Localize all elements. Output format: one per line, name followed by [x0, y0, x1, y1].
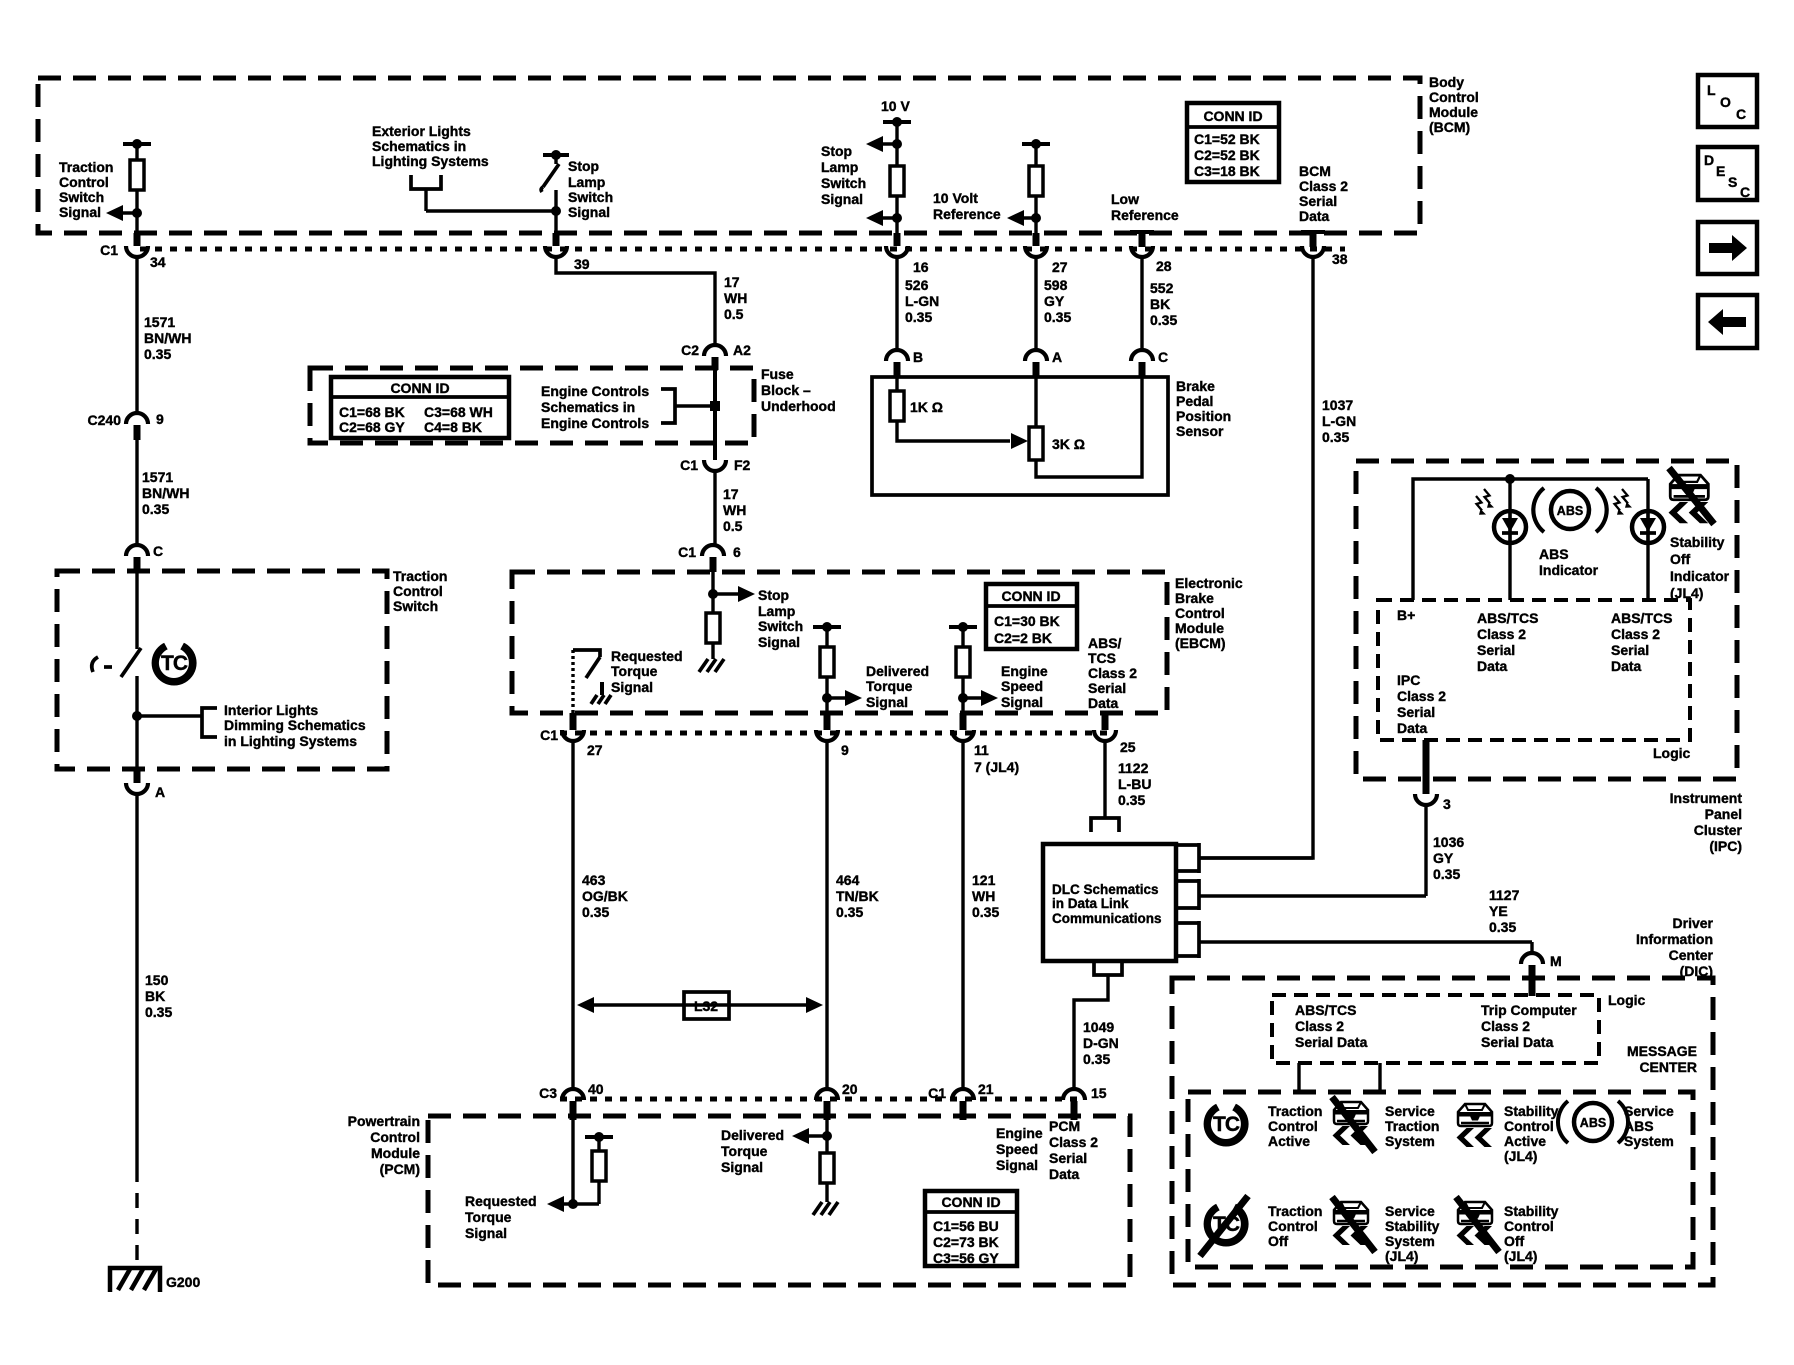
wire 526 L-GN	[895, 257, 898, 350]
svg-text:B+: B+	[1397, 607, 1415, 623]
svg-text:Class 2: Class 2	[1397, 688, 1446, 704]
off-page bracket (exterior lights ref)	[411, 175, 441, 189]
ground G200	[110, 1268, 200, 1292]
svg-text:Schematics in: Schematics in	[372, 138, 466, 154]
svg-text:25: 25	[1120, 739, 1136, 755]
nav button LOC	[1698, 75, 1757, 127]
svg-text:Position: Position	[1176, 408, 1231, 424]
off-page bracket above DLC	[1091, 818, 1119, 832]
stop lamp switch (BCM internal)	[541, 150, 569, 233]
connector pin 27	[1025, 233, 1068, 275]
svg-text:Active: Active	[1504, 1133, 1546, 1149]
svg-text:E: E	[1716, 163, 1725, 179]
svg-text:Traction: Traction	[1268, 1203, 1322, 1219]
svg-text:Signal: Signal	[1001, 694, 1043, 710]
svg-text:0.35: 0.35	[972, 904, 999, 920]
svg-text:0.35: 0.35	[1322, 429, 1349, 445]
svg-text:Driver: Driver	[1673, 915, 1714, 931]
requested torque branch (PCM)	[547, 1120, 613, 1212]
svg-text:Signal: Signal	[866, 694, 908, 710]
svg-text:(JL4): (JL4)	[1504, 1148, 1537, 1164]
svg-text:Underhood: Underhood	[761, 398, 836, 414]
svg-text:0.35: 0.35	[905, 309, 932, 325]
icon: car skid (stability control active)	[1457, 1104, 1493, 1147]
svg-text:C1=68 BK: C1=68 BK	[339, 404, 405, 420]
BCM Class 2 Serial Data stub (pin 38)	[1301, 232, 1325, 247]
svg-text:Requested: Requested	[465, 1193, 537, 1209]
svg-text:Data: Data	[1477, 658, 1508, 674]
svg-text:Control: Control	[1504, 1218, 1554, 1234]
svg-text:C: C	[1740, 184, 1750, 200]
svg-text:C3: C3	[539, 1085, 557, 1101]
wire 1122 L-BU	[1103, 741, 1106, 818]
svg-text:Control: Control	[1175, 605, 1225, 621]
svg-text:ABS: ABS	[1624, 1118, 1654, 1134]
svg-text:Stability: Stability	[1504, 1203, 1559, 1219]
wire 17 WH 0.5 (fuse to EBCM)	[713, 471, 716, 545]
svg-text:Interior Lights: Interior Lights	[224, 702, 318, 718]
svg-text:D-GN: D-GN	[1083, 1035, 1119, 1051]
Low Reference stub (pin 28)	[1130, 232, 1154, 247]
svg-text:Switch: Switch	[568, 189, 613, 205]
svg-text:Class 2: Class 2	[1295, 1018, 1344, 1034]
DLC pin 1 (to BCM 1037)	[1176, 843, 1313, 873]
svg-text:Engine: Engine	[996, 1125, 1043, 1141]
svg-text:C1: C1	[540, 727, 558, 743]
svg-text:Stop: Stop	[821, 143, 852, 159]
svg-text:L: L	[1707, 82, 1716, 98]
svg-text:1127: 1127	[1489, 887, 1520, 903]
wire 17 WH 0.5 to fuse block	[556, 257, 715, 345]
LED indicator: ABS	[1476, 479, 1526, 600]
requested torque signal switch (EBCM)	[573, 650, 611, 713]
fuse wire through block	[713, 370, 717, 460]
svg-text:Torque: Torque	[465, 1209, 512, 1225]
svg-text:Reference: Reference	[1111, 207, 1179, 223]
nav button back (left arrow)	[1698, 295, 1757, 348]
module box: Traction Control Switch	[57, 571, 387, 769]
svg-text:Stability: Stability	[1504, 1103, 1559, 1119]
svg-text:0.5: 0.5	[724, 306, 744, 322]
svg-text:Reference: Reference	[933, 206, 1001, 222]
svg-text:0.35: 0.35	[145, 1004, 172, 1020]
svg-text:ABS/TCS: ABS/TCS	[1295, 1002, 1356, 1018]
svg-text:39: 39	[574, 256, 590, 272]
svg-text:Signal: Signal	[758, 634, 800, 650]
svg-text:CONN ID: CONN ID	[1203, 108, 1262, 124]
svg-text:Information: Information	[1636, 931, 1713, 947]
svg-text:WH: WH	[972, 888, 995, 904]
CONN ID table (PCM)	[925, 1191, 1017, 1266]
connector pin 16	[886, 233, 929, 275]
svg-text:Module: Module	[1429, 104, 1478, 120]
svg-text:WH: WH	[723, 502, 746, 518]
B+ bus wire	[1413, 479, 1648, 600]
svg-text:Serial: Serial	[1088, 680, 1126, 696]
svg-text:10 Volt: 10 Volt	[933, 190, 978, 206]
harness dotted line (BCM connector)	[140, 247, 1345, 252]
svg-text:0.35: 0.35	[1118, 792, 1145, 808]
svg-text:27: 27	[587, 742, 603, 758]
svg-text:Lamp: Lamp	[758, 603, 795, 619]
wire M into logic box	[1529, 978, 1536, 996]
svg-text:in Lighting Systems: in Lighting Systems	[224, 733, 357, 749]
module box: Electronic Brake Control Module (EBCM)	[512, 572, 1167, 713]
svg-text:Torque: Torque	[866, 678, 913, 694]
svg-text:9: 9	[841, 742, 849, 758]
connector pin 28	[1131, 246, 1172, 274]
off-page bracket below DLC + wire 1049 D-GN	[1074, 961, 1122, 1089]
svg-text:IPC: IPC	[1397, 672, 1420, 688]
connector pin 3 (IPC)	[1415, 740, 1451, 812]
svg-text:C2=68 GY: C2=68 GY	[339, 419, 405, 435]
harness dotted line (PCM connector)	[560, 1097, 1082, 1102]
svg-text:C3=68 WH: C3=68 WH	[424, 404, 493, 420]
svg-text:Communications: Communications	[1052, 911, 1162, 926]
resistor (stop lamp sw signal)	[890, 166, 904, 196]
svg-text:TC: TC	[161, 652, 188, 675]
svg-text:Brake: Brake	[1176, 378, 1215, 394]
module box: Instrument Panel Cluster (IPC)	[1356, 461, 1737, 779]
icon: car with slash (service traction system)	[1332, 1097, 1375, 1152]
svg-text:ABS: ABS	[1557, 504, 1583, 518]
svg-text:(JL4): (JL4)	[1504, 1248, 1537, 1264]
module box: Body Control Module (BCM)	[38, 78, 1420, 233]
svg-text:1K Ω: 1K Ω	[910, 399, 943, 415]
svg-text:(JL4): (JL4)	[1385, 1248, 1418, 1264]
svg-text:0.35: 0.35	[836, 904, 863, 920]
svg-text:BN/WH: BN/WH	[142, 485, 189, 501]
svg-text:MESSAGE: MESSAGE	[1627, 1043, 1697, 1059]
svg-text:Serial Data: Serial Data	[1295, 1034, 1368, 1050]
svg-text:Data: Data	[1299, 208, 1330, 224]
svg-text:0.35: 0.35	[1044, 309, 1071, 325]
svg-text:GY: GY	[1044, 293, 1065, 309]
svg-text:B: B	[913, 349, 923, 365]
svg-text:C3=56 GY: C3=56 GY	[933, 1250, 999, 1266]
connector C1 pin 34	[100, 233, 166, 270]
module box: Driver Information Center (DIC)	[1172, 978, 1713, 1285]
svg-text:BN/WH: BN/WH	[144, 330, 191, 346]
svg-text:Traction: Traction	[393, 568, 447, 584]
DLC pin 2 (to IPC 1036)	[1176, 879, 1426, 910]
inline connector C240 pin 9	[88, 411, 164, 440]
svg-text:Exterior Lights: Exterior Lights	[372, 123, 471, 139]
svg-text:0.35: 0.35	[144, 346, 171, 362]
svg-text:27: 27	[1052, 259, 1068, 275]
svg-text:C3=18 BK: C3=18 BK	[1194, 163, 1260, 179]
svg-text:Serial: Serial	[1611, 642, 1649, 658]
svg-text:526: 526	[905, 277, 929, 293]
connector C3 pin 40 (PCM)	[539, 1081, 604, 1120]
svg-text:C2=52 BK: C2=52 BK	[1194, 147, 1260, 163]
svg-text:Service: Service	[1385, 1203, 1435, 1219]
svg-text:Delivered: Delivered	[721, 1127, 784, 1143]
svg-text:Schematics in: Schematics in	[541, 399, 635, 415]
svg-text:TN/BK: TN/BK	[836, 888, 879, 904]
connector C2 / A2 (fuse block)	[681, 342, 751, 370]
harness span marker L32	[577, 992, 823, 1019]
svg-text:Control: Control	[1429, 89, 1479, 105]
svg-text:3K Ω: 3K Ω	[1052, 436, 1085, 452]
resistor 1K	[890, 377, 1028, 449]
svg-text:C: C	[1736, 106, 1746, 122]
svg-text:Off: Off	[1504, 1233, 1525, 1249]
svg-text:38: 38	[1332, 251, 1348, 267]
svg-text:598: 598	[1044, 277, 1068, 293]
svg-text:0.35: 0.35	[1150, 312, 1177, 328]
svg-text:Data: Data	[1088, 695, 1119, 711]
svg-text:D: D	[1704, 152, 1714, 168]
svg-text:Speed: Speed	[1001, 678, 1043, 694]
connector C1 pin 6 (EBCM)	[678, 544, 741, 572]
wire 464 TN/BK	[825, 741, 828, 1089]
switch (traction control)	[92, 568, 141, 769]
svg-text:Indicator: Indicator	[1539, 562, 1599, 578]
svg-text:Traction: Traction	[1385, 1118, 1439, 1134]
module box: Powertrain Control Module (PCM)	[428, 1116, 1130, 1285]
svg-text:C: C	[1158, 349, 1168, 365]
CONN ID table (EBCM)	[986, 584, 1077, 649]
svg-text:Logic: Logic	[1653, 745, 1691, 761]
svg-text:Fuse: Fuse	[761, 366, 794, 382]
svg-text:Electronic: Electronic	[1175, 575, 1243, 591]
delivered torque branch (PCM)	[792, 1120, 838, 1215]
svg-text:ABS/TCS: ABS/TCS	[1611, 610, 1672, 626]
module box: Fuse Block - Underhood	[310, 368, 754, 443]
svg-text:Service: Service	[1624, 1103, 1674, 1119]
wire 1037 L-GN (BCM to DLC)	[1199, 257, 1313, 858]
svg-text:System: System	[1385, 1233, 1435, 1249]
message center box	[1188, 1092, 1693, 1267]
wire 598 GY	[1034, 257, 1037, 350]
wire 463 OG/BK	[571, 741, 574, 1089]
DLC pin 3 (to DIC 1127)	[1176, 921, 1532, 958]
CONN ID table (BCM)	[1187, 103, 1279, 182]
svg-text:(IPC): (IPC)	[1709, 838, 1742, 854]
svg-text:(JL4): (JL4)	[1670, 585, 1703, 601]
svg-text:0.35: 0.35	[582, 904, 609, 920]
svg-text:A: A	[1052, 349, 1062, 365]
svg-text:Stability: Stability	[1670, 534, 1725, 550]
svg-text:16: 16	[913, 259, 929, 275]
svg-text:Signal: Signal	[465, 1225, 507, 1241]
svg-text:C: C	[153, 543, 163, 559]
svg-text:BK: BK	[145, 988, 165, 1004]
svg-text:G200: G200	[166, 1274, 200, 1290]
connector pin 11	[952, 713, 1019, 775]
wire 1571 BN/WH (upper)	[135, 257, 138, 413]
svg-text:C1: C1	[928, 1085, 946, 1101]
connector pin M (DIC)	[1521, 953, 1562, 978]
svg-text:Speed: Speed	[996, 1141, 1038, 1157]
svg-text:L-GN: L-GN	[1322, 413, 1356, 429]
svg-text:Class 2: Class 2	[1299, 178, 1348, 194]
svg-text:Block –: Block –	[761, 382, 811, 398]
svg-text:Class 2: Class 2	[1088, 665, 1137, 681]
svg-text:0.35: 0.35	[1083, 1051, 1110, 1067]
signal arrow: Traction Control Switch Signal	[106, 205, 142, 221]
signal arrow lower (stop lamp)	[866, 210, 902, 226]
svg-text:1122: 1122	[1118, 760, 1149, 776]
svg-text:L32: L32	[694, 998, 718, 1014]
connector pin A	[1025, 349, 1062, 377]
svg-text:Control: Control	[59, 174, 109, 190]
icon: TC (traction control active)	[1204, 1098, 1249, 1146]
svg-text:Traction: Traction	[59, 159, 113, 175]
svg-text:(EBCM): (EBCM)	[1175, 635, 1226, 651]
10 Volt Reference branch	[1007, 139, 1050, 233]
svg-text:Data: Data	[1049, 1166, 1080, 1182]
ground (stop lamp branch)	[699, 659, 724, 672]
harness dotted line (EBCM connector)	[560, 731, 1113, 736]
icon: (ABS) service	[1558, 1101, 1628, 1143]
svg-text:Signal: Signal	[611, 679, 653, 695]
wire to stop lamp switch node	[426, 209, 556, 212]
svg-text:C2=2 BK: C2=2 BK	[994, 630, 1052, 646]
resistor (traction control switch signal pull-up)	[123, 139, 151, 233]
svg-text:C2=73 BK: C2=73 BK	[933, 1234, 999, 1250]
connector pin 9	[816, 713, 849, 758]
svg-text:Lighting Systems: Lighting Systems	[372, 153, 489, 169]
svg-text:10 V: 10 V	[881, 98, 910, 114]
connector pin B (brake pedal position sensor)	[886, 349, 923, 377]
svg-text:L-GN: L-GN	[905, 293, 939, 309]
svg-text:Requested: Requested	[611, 648, 683, 664]
delivered torque branch (EBCM)	[813, 622, 862, 713]
svg-text:28: 28	[1156, 258, 1172, 274]
svg-text:Off: Off	[1268, 1233, 1289, 1249]
svg-text:ABS/TCS: ABS/TCS	[1477, 610, 1538, 626]
svg-text:CONN ID: CONN ID	[390, 380, 449, 396]
icon: car with slash (service stability system)	[1332, 1197, 1375, 1252]
svg-text:O: O	[1720, 94, 1731, 110]
svg-text:Switch: Switch	[821, 175, 866, 191]
svg-text:C1: C1	[680, 457, 698, 473]
svg-text:1049: 1049	[1083, 1019, 1114, 1035]
junction + wire to interior lights ref	[132, 711, 142, 721]
svg-text:Signal: Signal	[721, 1159, 763, 1175]
svg-text:(BCM): (BCM)	[1429, 119, 1470, 135]
svg-text:F2: F2	[734, 457, 751, 473]
svg-text:CONN ID: CONN ID	[941, 1194, 1000, 1210]
svg-text:Low: Low	[1111, 191, 1139, 207]
svg-text:Sensor: Sensor	[1176, 423, 1224, 439]
svg-text:17: 17	[724, 274, 740, 290]
svg-text:Control: Control	[393, 583, 443, 599]
wire 552 BK	[1140, 257, 1143, 350]
svg-text:C1=30 BK: C1=30 BK	[994, 613, 1060, 629]
svg-text:WH: WH	[724, 290, 747, 306]
component box: DLC Schematics in Data Link Communications	[1043, 844, 1176, 961]
svg-text:Serial: Serial	[1049, 1150, 1087, 1166]
svg-text:Off: Off	[1670, 551, 1691, 567]
connector pin 25	[1094, 713, 1136, 755]
wire 1036 GY (IPC to DLC)	[1424, 805, 1427, 896]
svg-text:Signal: Signal	[821, 191, 863, 207]
svg-text:A: A	[155, 784, 165, 800]
svg-text:Stop: Stop	[568, 158, 599, 174]
svg-text:Lamp: Lamp	[821, 159, 858, 175]
wire 150 BK to ground	[135, 794, 138, 1167]
svg-text:Delivered: Delivered	[866, 663, 929, 679]
connector pin 15	[1063, 1085, 1107, 1120]
svg-text:Control: Control	[1504, 1118, 1554, 1134]
svg-text:7 (JL4): 7 (JL4)	[974, 759, 1019, 775]
svg-text:C1=56 BU: C1=56 BU	[933, 1218, 999, 1234]
svg-text:Module: Module	[371, 1145, 420, 1161]
svg-text:(DIC): (DIC)	[1680, 963, 1713, 979]
svg-text:Torque: Torque	[721, 1143, 768, 1159]
svg-text:Traction: Traction	[1268, 1103, 1322, 1119]
signal arrow: Stop Lamp Switch Signal (to BCM)	[866, 136, 902, 152]
svg-text:121: 121	[972, 872, 996, 888]
svg-text:ABS/: ABS/	[1088, 635, 1122, 651]
svg-text:6: 6	[733, 544, 741, 560]
svg-text:in Data Link: in Data Link	[1052, 896, 1129, 911]
svg-text:Engine: Engine	[1001, 663, 1048, 679]
svg-text:Class 2: Class 2	[1477, 626, 1526, 642]
svg-text:Engine Controls: Engine Controls	[541, 415, 649, 431]
svg-text:1571: 1571	[144, 314, 175, 330]
svg-text:Switch: Switch	[59, 189, 104, 205]
connector pin 20	[816, 1081, 858, 1120]
svg-text:1571: 1571	[142, 469, 173, 485]
nav button DESC	[1698, 147, 1757, 200]
svg-text:A2: A2	[733, 342, 751, 358]
svg-text:0.35: 0.35	[142, 501, 169, 517]
svg-text:Panel: Panel	[1705, 806, 1742, 822]
logic box (IPC)	[1378, 600, 1690, 740]
svg-text:BK: BK	[1150, 296, 1170, 312]
svg-text:Torque: Torque	[611, 663, 658, 679]
svg-text:9: 9	[156, 411, 164, 427]
svg-text:Control: Control	[1268, 1118, 1318, 1134]
svg-text:Center: Center	[1669, 947, 1714, 963]
off-page bracket (interior lights dimming)	[202, 708, 217, 737]
stop lamp switch signal branch (EBCM)	[706, 572, 755, 659]
svg-text:Pedal: Pedal	[1176, 393, 1213, 409]
svg-text:System: System	[1624, 1133, 1674, 1149]
svg-text:Active: Active	[1268, 1133, 1310, 1149]
svg-text:C1=52 BK: C1=52 BK	[1194, 131, 1260, 147]
svg-text:C240: C240	[88, 412, 122, 428]
svg-text:Class 2: Class 2	[1049, 1134, 1098, 1150]
svg-text:Data: Data	[1397, 720, 1428, 736]
svg-text:Stop: Stop	[758, 587, 789, 603]
svg-text:40: 40	[588, 1081, 604, 1097]
svg-text:CONN ID: CONN ID	[1001, 588, 1060, 604]
CONN ID table (fuse block)	[331, 377, 509, 438]
svg-text:Indicator: Indicator	[1670, 568, 1730, 584]
svg-text:34: 34	[150, 254, 166, 270]
wire 1571 BN/WH (lower)	[135, 440, 138, 545]
connector pin 39 (stop lamp switch signal)	[545, 233, 590, 272]
svg-text:C1: C1	[100, 242, 118, 258]
wire 121 WH	[961, 741, 964, 1089]
svg-text:YE: YE	[1489, 903, 1508, 919]
wire 1127 YE (DLC to DIC)	[1530, 942, 1533, 953]
svg-text:Dimming Schematics: Dimming Schematics	[224, 717, 366, 733]
icon: car with slash (stability off indicator)	[1669, 468, 1714, 524]
svg-text:0.35: 0.35	[1489, 919, 1516, 935]
svg-text:Switch: Switch	[758, 618, 803, 634]
svg-text:Switch: Switch	[393, 598, 438, 614]
svg-text:1036: 1036	[1433, 834, 1464, 850]
svg-text:ABS: ABS	[1539, 546, 1569, 562]
connector C1 pin 27 (EBCM)	[540, 713, 603, 758]
connector pin A (TCS)	[126, 769, 165, 800]
